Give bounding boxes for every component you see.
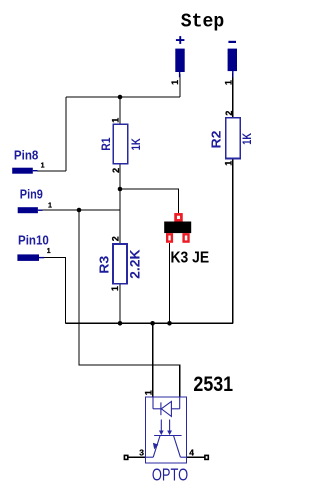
svg-text:Step: Step — [181, 11, 225, 33]
svg-text:Pin10: Pin10 — [18, 233, 49, 247]
svg-text:2: 2 — [224, 111, 234, 116]
svg-text:2: 2 — [110, 236, 120, 241]
svg-text:3: 3 — [139, 448, 144, 458]
svg-text:1K: 1K — [240, 133, 254, 145]
svg-text:1: 1 — [170, 80, 180, 85]
svg-text:OPTO: OPTO — [152, 464, 188, 484]
svg-text:1: 1 — [224, 161, 234, 166]
svg-text:2.2K: 2.2K — [127, 249, 143, 279]
svg-text:2531: 2531 — [193, 372, 233, 396]
svg-text:1: 1 — [47, 248, 51, 255]
svg-text:1: 1 — [110, 118, 120, 123]
svg-text:R1: R1 — [99, 137, 113, 151]
svg-text:1K: 1K — [129, 138, 143, 150]
svg-text:Pin8: Pin8 — [14, 148, 39, 162]
svg-text:2: 2 — [111, 168, 121, 173]
svg-text:1: 1 — [223, 80, 233, 85]
svg-text:1: 1 — [41, 162, 45, 169]
svg-text:Pin9: Pin9 — [20, 188, 43, 202]
svg-text:K3 JE: K3 JE — [171, 249, 210, 266]
svg-text:1: 1 — [110, 286, 120, 291]
svg-text:R3: R3 — [98, 256, 112, 274]
svg-text:4: 4 — [189, 448, 194, 458]
svg-text:1: 1 — [143, 390, 153, 395]
svg-text:1: 1 — [48, 202, 52, 209]
svg-text:R2: R2 — [210, 130, 224, 148]
